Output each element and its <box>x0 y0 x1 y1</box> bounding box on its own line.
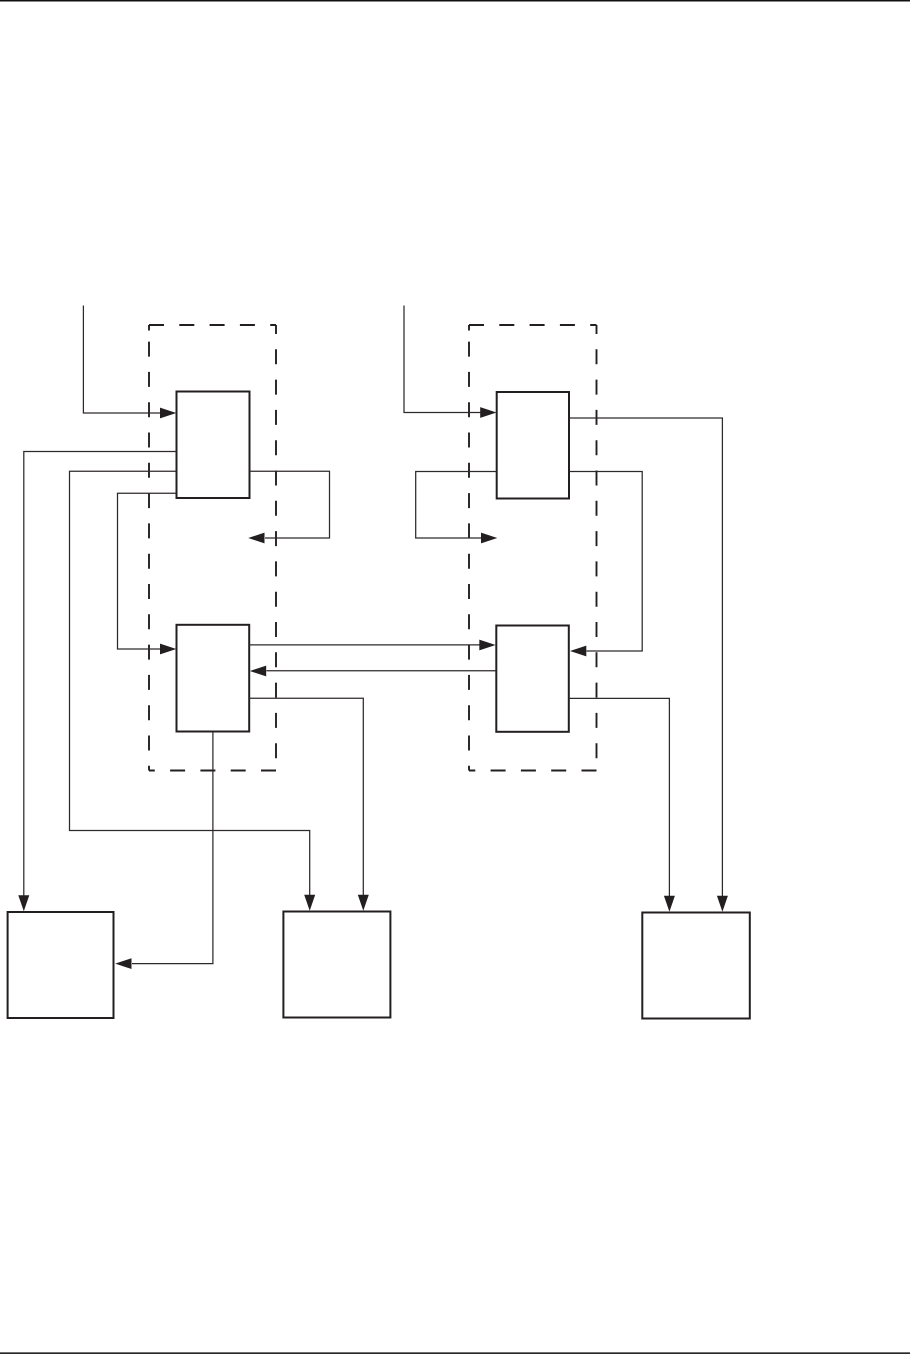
top header rule <box>0 0 910 2</box>
wire W11 box4 left to box2 right <box>250 666 496 677</box>
wire W6 loop from box1 right with left arrow <box>248 471 329 543</box>
wire W1 into box1 left <box>83 306 176 419</box>
block box3 (upper right) <box>497 392 569 499</box>
wire W13 box4 right to bottom-right box top <box>569 698 675 911</box>
wire W4 box1 left to bottom-middle box top <box>70 471 316 911</box>
wire W2 into box3 left <box>404 306 497 418</box>
wire W9 box3 right to box4 right <box>569 472 642 657</box>
block bottom-right box <box>642 913 750 1019</box>
wire W10 box2 right to box4 left <box>249 640 495 651</box>
block box2 (lower left) <box>177 625 250 732</box>
wire W7 loop from box3 left with right arrow <box>416 472 498 544</box>
wire W14 box2 bottom to bottom-left box right <box>115 732 213 970</box>
block bottom-middle box <box>283 912 390 1018</box>
block box4 (lower right) <box>496 626 569 732</box>
wire W8 box3 right to bottom-right box top <box>569 418 728 912</box>
wire W3 box1 left to bottom-left box top <box>18 452 176 912</box>
block bottom-left box <box>8 912 114 1018</box>
dashed group frame left <box>149 325 276 771</box>
wire W12 box2 right to bottom-middle box top <box>249 698 369 910</box>
dashed group frame right <box>469 325 597 771</box>
block box1 (upper left) <box>177 392 250 499</box>
wire W5 box1 left to box2 left <box>118 493 177 654</box>
bottom footer rule <box>0 1352 910 1354</box>
